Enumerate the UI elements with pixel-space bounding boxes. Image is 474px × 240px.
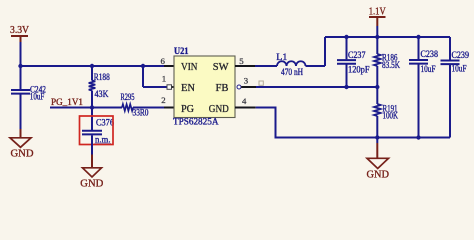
wire C376 bottom (91, 135, 93, 154)
svg-text:10uF: 10uF (452, 63, 467, 73)
wire PG_1V1 left (50, 107, 122, 109)
svg-text:10uF: 10uF (30, 91, 45, 101)
svg-text:120pF: 120pF (348, 65, 370, 75)
pin 1 stub EN (172, 86, 174, 88)
svg-text:L1: L1 (276, 52, 287, 63)
not-mounted red box C376 (80, 116, 114, 145)
capacitor C239 (441, 37, 470, 138)
svg-text:GND: GND (367, 170, 390, 181)
svg-text:C238: C238 (421, 49, 439, 59)
power port 1.1V (369, 6, 387, 26)
wire C242 top (20, 66, 22, 89)
pin 3 stub FB (241, 86, 256, 88)
svg-text:83.5K: 83.5K (382, 60, 400, 70)
capacitor C376 (n.m.) (82, 117, 114, 144)
node junction GND stem (375, 135, 379, 139)
capacitor C238 (409, 37, 438, 138)
ground GND center (367, 138, 390, 181)
svg-text:U21: U21 (174, 47, 189, 57)
wire PG_1V1 right (133, 107, 164, 109)
node junction C237 bottom (344, 85, 348, 89)
resistor R188 (89, 66, 110, 108)
svg-text:2: 2 (161, 95, 165, 105)
capacitor C242 (11, 84, 46, 101)
node junction FB divider (375, 85, 379, 89)
svg-text:R188: R188 (94, 72, 110, 82)
wire EN branch horizontal (143, 86, 167, 88)
node junction 3.3V/C242 (18, 64, 22, 68)
svg-text:GND: GND (209, 104, 229, 115)
power port 3.3V (10, 25, 30, 42)
svg-text:R295: R295 (121, 92, 135, 102)
ground GND under C376 (80, 155, 103, 190)
ground GND left (10, 129, 34, 160)
pin 3 marker circle FB (237, 85, 241, 89)
svg-text:C376: C376 (96, 117, 114, 127)
pin 2 stub PG (164, 107, 174, 109)
svg-text:n.m.: n.m. (95, 135, 111, 145)
wire up to 1.1V rail (324, 37, 326, 66)
node junction C237 top (344, 35, 348, 39)
wire C242 bottom (20, 94, 22, 129)
node junction PG/C376 (90, 105, 94, 109)
svg-text:C239: C239 (452, 50, 470, 60)
svg-text:PG: PG (181, 104, 194, 115)
pin 4 stub GND (235, 107, 256, 109)
wire FB line (256, 86, 377, 88)
wire 3.3V rail (21, 65, 165, 67)
svg-text:SW: SW (213, 62, 229, 73)
svg-text:TPS62825A: TPS62825A (173, 117, 219, 127)
svg-text:GND: GND (80, 179, 103, 190)
svg-text:10uF: 10uF (421, 64, 436, 74)
svg-text:470 nH: 470 nH (281, 67, 303, 77)
svg-text:PG_1V1: PG_1V1 (51, 97, 83, 108)
node junction R188 top (90, 64, 94, 68)
wire SW to L1 (255, 65, 277, 67)
wire 3.3V stem (20, 42, 22, 66)
svg-text:FB: FB (216, 83, 229, 94)
node junction C238 bottom (416, 135, 420, 139)
pin 1 marker square EN (167, 85, 172, 90)
resistor R191 (374, 87, 398, 138)
node junction EN branch (141, 64, 145, 68)
svg-text:3: 3 (244, 76, 249, 86)
pin 5 stub SW (235, 65, 255, 67)
svg-text:VIN: VIN (181, 62, 198, 73)
node junction C238 top (416, 35, 420, 39)
svg-text:33R0: 33R0 (133, 108, 149, 118)
wire 1.1V rail (325, 36, 450, 38)
svg-text:EN: EN (181, 83, 195, 94)
svg-text:43K: 43K (95, 89, 109, 99)
inductor L1 (276, 52, 305, 77)
svg-text:3.3V: 3.3V (10, 25, 30, 36)
wire L1 out (306, 65, 326, 67)
op-amp U21 body TPS62825A (173, 47, 235, 127)
capacitor C237 (337, 37, 370, 87)
svg-text:1: 1 (162, 74, 166, 84)
svg-text:4: 4 (242, 96, 247, 106)
svg-text:GND: GND (11, 149, 34, 160)
svg-text:100K: 100K (383, 110, 399, 120)
wire EN branch vertical (142, 66, 144, 87)
svg-text:6: 6 (161, 56, 166, 66)
resistor R186 (374, 37, 400, 87)
wire C376 top (91, 108, 93, 131)
wire GND pin to bottom rail (256, 108, 450, 138)
node junction 1.1V stem (375, 35, 379, 39)
pin 6 stub VIN (164, 65, 174, 67)
resistor R295 (121, 92, 149, 117)
no-ERC marker on FB (259, 81, 263, 85)
svg-text:C237: C237 (348, 50, 366, 60)
svg-text:5: 5 (239, 56, 244, 66)
wire 1.1V stem (376, 26, 378, 37)
svg-text:1.1V: 1.1V (369, 6, 387, 17)
